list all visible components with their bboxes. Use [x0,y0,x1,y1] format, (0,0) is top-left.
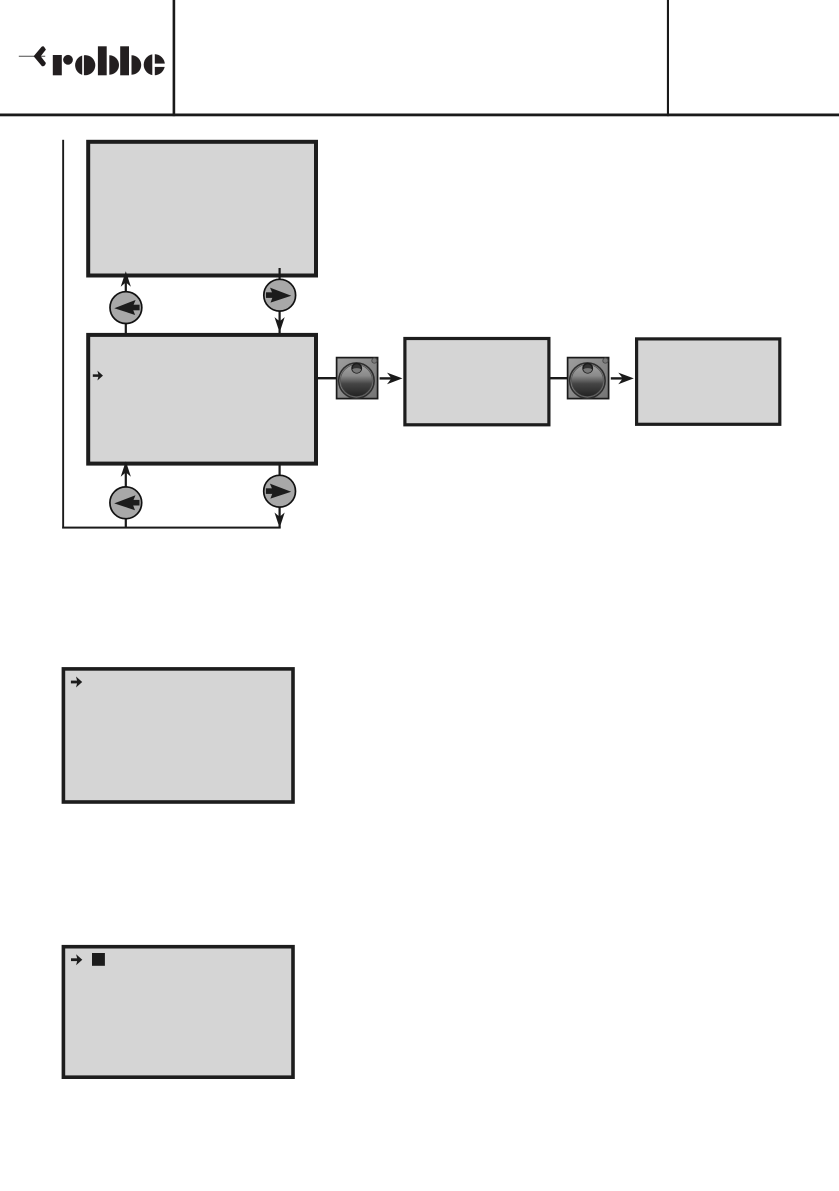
wire box2 to dial 1 [318,377,337,379]
arrow glyph in box 5 [71,677,82,688]
arrow dial1 to box3 [380,377,394,379]
rotary dial icon 2 [568,358,609,399]
wire left of pair 1 [125,277,127,333]
wire right of pair 1 [279,268,281,333]
logo plane chevron [34,46,46,66]
arrow dial2 to box4 [611,377,625,379]
wire right of pair 2 [279,463,281,528]
letter b2 [120,46,129,75]
wire left of pair 2 [125,463,127,528]
header bottom horizontal rule [0,114,839,117]
knob left 2 [110,487,142,519]
box 3 [405,339,549,425]
robbe logo [19,46,166,76]
left loop wire vertical [62,140,64,529]
box 5 [63,669,293,802]
wire box3 to dial 2 [551,377,568,379]
box 4 [637,339,780,424]
bottom loop wire horizontal [62,527,281,529]
letter e [144,54,165,75]
cursor square in box 6 [92,953,105,966]
arrow glyph in box 2 [93,371,103,381]
logo plane line [19,56,45,57]
letter b1 [98,46,107,75]
letter o [75,55,95,75]
up arrowhead into box 1 [121,271,131,287]
header divider vertical line left [173,0,176,116]
knob right 1 [264,279,296,311]
box 2 [88,335,316,464]
down arrowhead into box 2 [275,317,285,333]
knob right 2 [264,475,296,507]
arrow glyph in box 6 [71,954,82,965]
down arrowhead onto loop wire [275,513,285,529]
box 1 (top) [88,142,316,276]
letter r [53,55,62,75]
up arrowhead into box 2 [121,461,131,477]
header divider vertical line right [667,0,669,116]
knob left 1 [110,292,142,324]
box 6 [63,947,293,1077]
rotary dial icon 1 [337,358,378,399]
